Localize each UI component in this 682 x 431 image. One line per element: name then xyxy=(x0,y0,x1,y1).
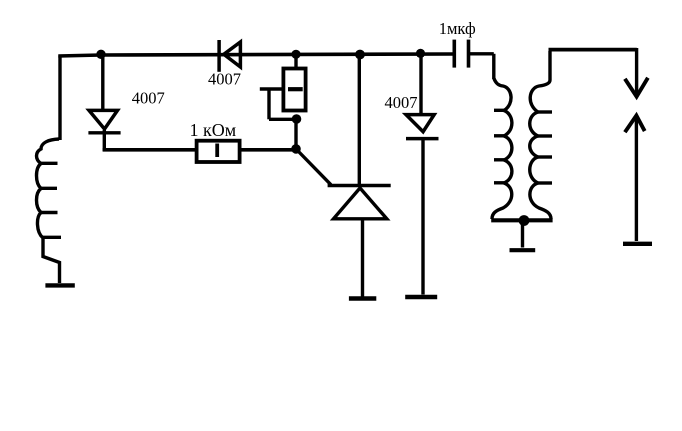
svg-text:1 кОм: 1 кОм xyxy=(190,120,237,140)
svg-text:4007: 4007 xyxy=(132,89,165,108)
svg-text:1мкф: 1мкф xyxy=(439,19,476,38)
svg-text:4007: 4007 xyxy=(208,69,241,88)
svg-text:4007: 4007 xyxy=(385,93,418,112)
